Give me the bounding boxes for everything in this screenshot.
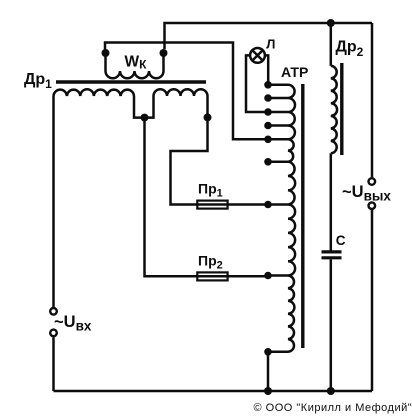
wire Dr1 right winding to center tap — [145, 96, 154, 118]
core Dr1 — [56, 80, 206, 83]
wire right bus lower — [371, 210, 374, 391]
svg-text:~Uвх: ~Uвх — [54, 313, 92, 334]
autotransformer ATR winding — [288, 85, 295, 352]
wire bottom bus — [54, 390, 373, 393]
terminal Uvyh upper — [369, 178, 376, 185]
wire Dr1 center tap to fuse Pr2 — [145, 118, 198, 277]
node bottom ATR junction — [264, 387, 272, 395]
wire right bus upper — [371, 23, 374, 177]
svg-text:Др2: Др2 — [336, 39, 364, 60]
core ATR — [301, 84, 304, 348]
node top-right junction — [327, 19, 335, 27]
svg-text:АТР: АТР — [281, 64, 308, 80]
svg-text:Пр1: Пр1 — [198, 181, 223, 200]
node Dr1 center tap — [141, 114, 149, 122]
inductor Dr2 winding — [331, 66, 337, 154]
fuse Pr1 — [197, 203, 266, 206]
wire Dr1 left winding to center tap — [134, 96, 145, 118]
svg-text:С: С — [336, 233, 346, 248]
wire lamp left lead to ATR tap3 — [246, 55, 266, 112]
svg-text:Пр2: Пр2 — [198, 253, 223, 272]
wire ATR bottom tap to bottom bus — [267, 352, 270, 391]
node Wk right terminal — [160, 49, 168, 57]
node Dr1 right end — [204, 113, 212, 121]
terminal Uvyh lower — [369, 202, 376, 209]
inductor Dr1 left winding — [54, 89, 135, 96]
fuse Pr2 — [197, 275, 266, 278]
svg-text:Л: Л — [266, 36, 275, 51]
wire Dr1 left lead down — [52, 96, 55, 307]
wire Dr2 to capacitor — [330, 153, 333, 250]
wire capacitor to bottom bus — [330, 259, 333, 391]
inductor Dr1 right winding — [154, 89, 208, 96]
wire Wk-left to ATR tap5 — [105, 43, 266, 140]
ATR tap rungs — [268, 84, 288, 87]
terminal Uvh upper — [50, 308, 57, 315]
svg-text:Др1: Др1 — [24, 71, 52, 91]
core Dr2 — [340, 63, 343, 155]
svg-text:~Uвых: ~Uвых — [342, 183, 391, 204]
node bottom capacitor junction — [327, 387, 335, 395]
wire Dr1 right end to fuse Pr1 — [171, 117, 208, 204]
svg-text:WК: WК — [125, 54, 148, 72]
terminal Uvh lower — [50, 330, 57, 337]
lamp L — [250, 48, 265, 63]
wire Dr1 right end down — [206, 96, 209, 117]
node Wk left terminal — [102, 49, 110, 57]
winding Wk — [104, 51, 107, 71]
wire lamp right lead to ATR tap1 — [265, 55, 268, 84]
inductor Dr2 lead from top bus — [330, 23, 333, 66]
svg-text:© ООО "Кирилл и Мефодий": © ООО "Кирилл и Мефодий" — [254, 402, 412, 414]
capacitor C — [322, 250, 342, 253]
wire left lead to bottom bus — [52, 337, 55, 391]
wire top bus — [165, 23, 373, 49]
ATR tap nodes — [264, 81, 272, 89]
